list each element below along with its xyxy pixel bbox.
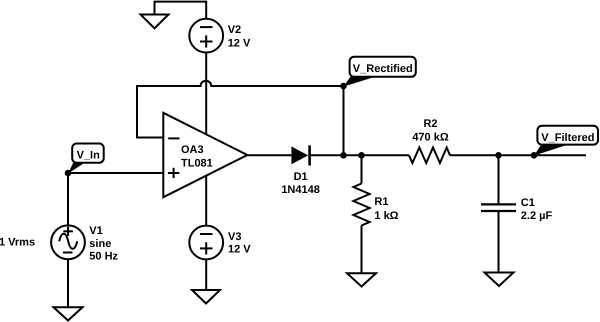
svg-text:470 kΩ: 470 kΩ (412, 132, 449, 144)
ground (below V1) (54, 307, 83, 320)
svg-text:V_In: V_In (77, 149, 101, 161)
svg-text:50 Hz: 50 Hz (89, 250, 118, 262)
wire R1 top (361, 155, 363, 183)
voltage source V3 (189, 226, 223, 260)
ground (below C1) (485, 273, 514, 287)
svg-text:TL081: TL081 (181, 158, 213, 170)
node junction R1 (358, 152, 365, 159)
wire op-amp V- pin to V3 (205, 176, 207, 226)
op-amp U1 OA3 TL081 (163, 113, 247, 197)
wire V2 bottom to op-amp V+ pin (205, 53, 207, 135)
svg-text:1 Vrms: 1 Vrms (0, 237, 35, 249)
voltage source V2 (189, 19, 223, 53)
svg-text:V1: V1 (89, 225, 102, 237)
wire top-left from ground to V2 top (155, 2, 207, 19)
svg-text:R1: R1 (374, 196, 388, 208)
svg-text:V_Rectified: V_Rectified (353, 63, 413, 75)
svg-text:C1: C1 (521, 197, 535, 209)
wire op-amp output to diode (247, 154, 291, 156)
voltage source V1 (51, 225, 85, 259)
svg-text:2.2 µF: 2.2 µF (521, 210, 553, 222)
wire R2 right to end (450, 154, 586, 156)
svg-text:1N4148: 1N4148 (281, 184, 320, 196)
node junction C1 (495, 152, 502, 159)
svg-text:V3: V3 (228, 231, 241, 243)
ground (below V3) (192, 290, 220, 304)
wire C1 top (498, 155, 500, 204)
ground (top, above V2) (141, 15, 169, 29)
node junction at V_Rectified column (340, 152, 347, 159)
svg-text:12 V: 12 V (228, 37, 251, 49)
svg-text:1 kΩ: 1 kΩ (374, 210, 398, 222)
svg-text:V2: V2 (228, 24, 241, 36)
capacitor C1 (481, 203, 516, 205)
node V_In (65, 170, 72, 177)
svg-text:R2: R2 (423, 118, 437, 130)
wire feedback: op-amp inverting input to V_Rectified node (hop over V2 wire) (137, 81, 344, 156)
wire V_In node down to V1 (67, 173, 69, 225)
svg-text:OA3: OA3 (181, 144, 204, 156)
node V_Rectified (340, 83, 347, 90)
svg-text:V_Filtered: V_Filtered (541, 132, 594, 144)
svg-text:D1: D1 (294, 171, 308, 183)
resistor R1 (353, 184, 369, 226)
resistor R2 (409, 148, 450, 164)
wire C1 bottom to ground (498, 211, 500, 273)
ground (below R1) (347, 273, 376, 286)
wire V3 bottom to ground (205, 259, 207, 290)
svg-text:sine: sine (89, 238, 111, 250)
wire V1 bottom to ground (67, 259, 69, 307)
diode D1 (291, 147, 308, 165)
wire diode cathode to R2 (310, 154, 409, 156)
wire non-inverting input from V_In node (68, 172, 163, 174)
wire R1 bottom to ground (361, 226, 363, 274)
svg-text:12 V: 12 V (228, 243, 251, 255)
node V_Filtered (531, 152, 538, 159)
